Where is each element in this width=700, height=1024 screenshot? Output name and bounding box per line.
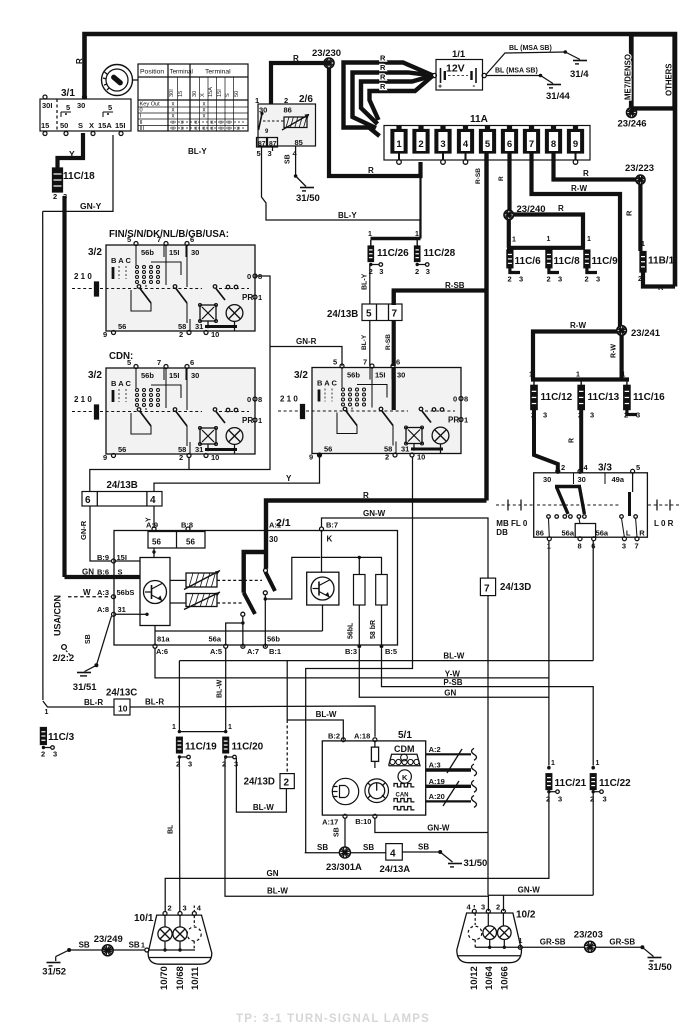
svg-text:5: 5 [108, 103, 112, 112]
wire box2 pin2 to y470 bus [188, 458, 190, 470]
svg-text:2/6: 2/6 [299, 94, 313, 105]
splice 23/230 [324, 58, 334, 68]
svg-text:B:2: B:2 [328, 732, 340, 741]
svg-text:8: 8 [578, 542, 582, 551]
svg-text:0: 0 [247, 395, 251, 404]
wire R-SB bus to 24/13B-7 [394, 291, 487, 306]
switch 3/2-CDN right pins 0 8 [253, 397, 257, 401]
connector 11C/8 [546, 250, 552, 268]
svg-text:24/13B: 24/13B [327, 309, 358, 320]
svg-text:3: 3 [603, 795, 607, 804]
splice 23/223 [636, 175, 645, 184]
wire GN-R box1 pin8 to box3 pin5 and 24/13B-6 [90, 276, 270, 492]
svg-text:5: 5 [333, 358, 337, 367]
svg-text:SB: SB [363, 843, 374, 852]
switch 3/2-3 lever contacts dots [342, 388, 345, 391]
svg-text:S: S [78, 121, 83, 130]
switch 3/2-3 internal wires [341, 368, 343, 388]
lamp 10/1 bulbs [164, 916, 166, 928]
svg-text:B A C: B A C [111, 256, 131, 265]
svg-text:GN: GN [444, 689, 456, 698]
svg-text:56: 56 [152, 538, 161, 547]
relay 2/6 coil [284, 117, 307, 128]
wire GN-Y from ignition 15A [43, 135, 113, 211]
svg-text:56b: 56b [141, 248, 154, 257]
svg-text:11C/13: 11C/13 [588, 392, 620, 403]
module 5/1 box [322, 741, 425, 815]
lamp 10/2 bulbs [487, 913, 489, 926]
lamp 10/1 dashed bulb [193, 916, 195, 927]
svg-text:11A: 11A [470, 114, 488, 125]
svg-text:R: R [368, 166, 374, 175]
svg-text:11C/12: 11C/12 [541, 392, 573, 403]
wire R 11B/1 to right edge [643, 272, 675, 287]
switch 3/2-3 box [312, 368, 461, 454]
svg-text:7: 7 [157, 235, 161, 244]
svg-text:2: 2 [41, 750, 45, 759]
blade contact and pivot [264, 569, 268, 573]
svg-text:3/2: 3/2 [88, 247, 102, 258]
svg-text:11C/28: 11C/28 [424, 248, 456, 259]
switch 3/2-CDN top pins [134, 365, 138, 369]
svg-text:30: 30 [77, 101, 85, 110]
svg-text:31/52: 31/52 [42, 967, 66, 978]
connector 11C/28 [416, 240, 418, 246]
svg-text:3: 3 [558, 795, 562, 804]
svg-text:0: 0 [247, 272, 251, 281]
wire GN-W B:10 branch [375, 818, 488, 832]
transistor T2 [311, 577, 334, 600]
svg-text:B:8: B:8 [181, 521, 193, 530]
svg-text:S: S [225, 93, 231, 97]
svg-text:P-SB: P-SB [443, 678, 462, 687]
switch 3/2-CDN blades [137, 408, 141, 412]
splice 23/246 [627, 108, 637, 118]
switch 3/2-CDN box [106, 368, 255, 454]
switch 3/2-FIN top pins [134, 242, 138, 246]
svg-text:Y: Y [69, 149, 75, 159]
splice 23/240 [504, 210, 514, 220]
connector 24/13A box [386, 844, 403, 861]
svg-text:56b: 56b [267, 635, 280, 644]
wire BL-W horizontal to 3/3 pin6 [179, 660, 593, 662]
svg-text:ME7/DENSO: ME7/DENSO [624, 54, 633, 100]
svg-text:5: 5 [257, 149, 261, 158]
svg-text:10: 10 [211, 453, 219, 462]
svg-text:R: R [293, 54, 299, 63]
svg-text:OTHERS: OTHERS [665, 64, 674, 97]
svg-text:CDM: CDM [394, 744, 415, 754]
svg-text:30: 30 [543, 475, 551, 484]
svg-text:10: 10 [118, 704, 128, 714]
svg-text:23/241: 23/241 [631, 328, 661, 339]
unit 2/1 transistor box right [307, 572, 339, 605]
svg-text:11C/9: 11C/9 [592, 256, 619, 267]
svg-text:R-SB: R-SB [445, 281, 465, 290]
connector 11C/9 [584, 250, 590, 268]
svg-text:2: 2 [385, 453, 389, 462]
svg-text:1: 1 [547, 236, 551, 243]
svg-text:x: x [228, 126, 231, 132]
svg-text:0: 0 [453, 395, 457, 404]
wire R splice 23/230 down to fuse 2 [329, 68, 421, 176]
svg-text:B A C: B A C [317, 379, 337, 388]
svg-text:56a: 56a [596, 529, 609, 538]
wire BL-W 11C/20 pin2 down to 10/2 pin3 [225, 757, 488, 911]
switch 3/2-CDN warn symbol [200, 428, 216, 444]
svg-text:2: 2 [508, 275, 512, 284]
lamp 10/2 dashed bulb [474, 913, 476, 925]
ground 31/51 [77, 672, 91, 674]
svg-text:11C/18: 11C/18 [63, 171, 95, 182]
wire 56a contact to A:5 A:7 [242, 616, 244, 647]
svg-text:24/13C: 24/13C [106, 688, 137, 699]
svg-text:K: K [327, 535, 333, 544]
svg-text:A:5: A:5 [210, 647, 222, 656]
svg-text:BL: BL [168, 824, 175, 834]
svg-text:1: 1 [141, 943, 145, 950]
svg-text:2: 2 [53, 192, 57, 201]
svg-text:R-W: R-W [611, 344, 618, 358]
switch 3/2-FIN lever contacts dots [136, 266, 139, 269]
wire main feed R top bus [85, 34, 676, 287]
svg-text:56a: 56a [562, 529, 575, 538]
svg-text:1: 1 [415, 231, 419, 238]
svg-text:8: 8 [464, 395, 468, 404]
wire Y 24/13B-4 down to 2/1 A:9 [153, 506, 155, 528]
svg-text:GR-SB: GR-SB [609, 938, 635, 947]
svg-text:3: 3 [558, 275, 562, 284]
wire K vertical [321, 531, 323, 572]
svg-text:1: 1 [596, 760, 600, 767]
svg-text:2: 2 [284, 96, 288, 105]
svg-text:2: 2 [415, 267, 419, 276]
svg-text:11C/6: 11C/6 [515, 256, 542, 267]
svg-text:BL-R: BL-R [84, 698, 103, 707]
lamp 10/1 pin4 stub [193, 906, 195, 912]
svg-text:5: 5 [485, 139, 491, 150]
svg-text:31/50: 31/50 [296, 193, 320, 204]
svg-text:Y: Y [286, 474, 292, 483]
svg-text:3: 3 [268, 149, 272, 158]
svg-text:B:1: B:1 [269, 647, 281, 656]
svg-text:SB: SB [418, 843, 429, 852]
svg-text:5: 5 [127, 358, 131, 367]
svg-text:3: 3 [183, 904, 187, 913]
wire 11C/13 to 3/3 pin4 [579, 410, 583, 473]
svg-text:30: 30 [578, 475, 586, 484]
wire GN down from 11C/18 pin3 [62, 196, 66, 577]
svg-text:30: 30 [192, 91, 198, 97]
svg-text:23/301A: 23/301A [326, 862, 362, 873]
svg-text:15A: 15A [208, 87, 214, 97]
wire R-W 23/241 left branch [533, 332, 617, 380]
svg-text:7: 7 [363, 358, 367, 367]
svg-text:1: 1 [519, 938, 523, 945]
switch 3/2-3 warn symbol [406, 428, 422, 444]
wire to ground 31/50 right [640, 945, 644, 949]
svg-text:R: R [639, 529, 645, 538]
wire R fuse6 to 23/240 [507, 153, 511, 210]
svg-text:30: 30 [191, 248, 199, 257]
svg-text:31: 31 [401, 445, 409, 454]
connector 11C/22 [591, 766, 595, 770]
svg-text:15: 15 [178, 91, 184, 97]
switch 3/2-CDN bottom pins [112, 454, 116, 458]
switch 3/2-FIN dashed travel line [72, 288, 92, 290]
svg-text:10: 10 [211, 330, 219, 339]
ground 31/50 relay [300, 187, 314, 189]
wire GN-W across to 11C/22 column and lamp 10/2 [488, 894, 593, 896]
svg-text:3: 3 [519, 275, 523, 284]
svg-text:x: x [203, 114, 206, 120]
svg-text:86: 86 [536, 529, 544, 538]
resistor 58bR [376, 575, 388, 606]
svg-text:56bS: 56bS [117, 588, 135, 597]
svg-text:31/4: 31/4 [570, 69, 589, 80]
svg-text:A:3: A:3 [97, 588, 109, 597]
svg-text:2: 2 [590, 795, 594, 804]
svg-text:BL-W: BL-W [253, 803, 274, 812]
wire 3/3 pin1 down GN to 11C/21 [548, 541, 550, 766]
svg-text:24/13D: 24/13D [244, 777, 275, 788]
svg-text:7: 7 [635, 542, 639, 551]
switch 3/3 sub box [575, 524, 595, 538]
wire 11C/16 elbow [627, 410, 637, 415]
svg-text:x: x [211, 126, 214, 132]
svg-text:R: R [498, 176, 505, 181]
svg-text:11C/8: 11C/8 [554, 256, 581, 267]
cable slashes [447, 749, 462, 773]
svg-text:BL (MSA SB): BL (MSA SB) [509, 45, 552, 52]
svg-text:10/64: 10/64 [484, 966, 495, 990]
connector 11C/21 [547, 766, 551, 770]
svg-text:85: 85 [295, 138, 303, 147]
svg-text:B:10: B:10 [355, 817, 371, 826]
svg-text:58 bR: 58 bR [370, 620, 377, 639]
svg-text:8: 8 [551, 139, 556, 150]
wire R-W 23/241 to connector bus [619, 335, 623, 379]
svg-text:4: 4 [390, 849, 396, 860]
svg-text:11C/26: 11C/26 [377, 248, 409, 259]
switch 3/2-CDN internal wires [135, 368, 137, 388]
wire Y from ignition S terminal [58, 133, 84, 168]
wire SB A:17 to 23/301A [344, 818, 346, 847]
wire BL-W A:6 81a to 3/3 pin1 [155, 648, 549, 678]
svg-text:3: 3 [379, 267, 383, 276]
fuses 1-9 [391, 130, 407, 154]
wire box3 pin10 to SB net [306, 458, 413, 853]
svg-text:x: x [195, 126, 198, 132]
svg-text:BL-W: BL-W [217, 679, 224, 698]
svg-text:56: 56 [186, 538, 195, 547]
svg-text:11C/21: 11C/21 [555, 778, 587, 789]
svg-text:30: 30 [397, 371, 405, 380]
svg-text:BL-Y: BL-Y [338, 211, 357, 220]
svg-text:3/3: 3/3 [598, 463, 612, 474]
svg-text:GN-W: GN-W [427, 824, 450, 833]
svg-text:A:18: A:18 [354, 732, 370, 741]
svg-text:9: 9 [103, 330, 107, 339]
wire SB lamp 10/1 to 23/249 [69, 949, 145, 951]
svg-text:50: 50 [60, 121, 68, 130]
svg-text:1: 1 [258, 293, 262, 302]
svg-text:15I: 15I [169, 371, 179, 380]
svg-text:7: 7 [392, 309, 398, 320]
splice 23/203 [585, 941, 596, 952]
relay coil K2 [186, 594, 217, 607]
wire internal 31 bus [155, 630, 323, 632]
svg-text:10/2: 10/2 [516, 910, 536, 921]
svg-text:10/11: 10/11 [190, 966, 201, 990]
svg-text:11C/16: 11C/16 [633, 392, 665, 403]
svg-text:1: 1 [576, 372, 580, 379]
wire BL-Y 11C/26 to box3 pin7 [369, 265, 371, 305]
svg-text:BL-W: BL-W [316, 710, 337, 719]
lamp assembly 10/1 body [148, 915, 212, 964]
svg-text:87: 87 [258, 141, 266, 148]
module 5/1 rotary symbol [365, 779, 389, 803]
svg-text:5: 5 [366, 309, 372, 320]
svg-text:23/223: 23/223 [625, 163, 654, 174]
switch 3/3 dashed travel line [496, 504, 533, 506]
wire bus 11C/26 11C/28 pin1 [371, 237, 421, 240]
switch 3/2-CDN dashed travel line [72, 411, 92, 413]
svg-text:5: 5 [127, 235, 131, 244]
svg-text:X: X [200, 93, 206, 97]
wire to ground 31/52 [67, 948, 71, 952]
svg-text:BL-W: BL-W [443, 652, 464, 661]
wire BL-W A:5 down [225, 648, 227, 731]
wire R-SB 24/13B-7 to box3 pin6 [392, 291, 396, 306]
svg-text:R-SB: R-SB [475, 168, 482, 184]
svg-text:1: 1 [228, 724, 232, 731]
switch 3/2-CDN lever contacts dots [136, 389, 139, 392]
svg-text:1: 1 [622, 372, 626, 379]
lamp assembly 10/2 body [457, 913, 522, 963]
lamp 10/2 internal bus [475, 946, 520, 948]
svg-text:5: 5 [66, 103, 70, 112]
switch 3/2-FIN box [106, 245, 255, 331]
svg-text:15I: 15I [115, 121, 125, 130]
svg-text:BL-Y: BL-Y [361, 334, 368, 350]
svg-text:GN-Y: GN-Y [80, 201, 102, 211]
svg-text:SB: SB [85, 634, 92, 644]
switch 3/3 box [534, 473, 648, 537]
connector 11C/13 [580, 380, 582, 386]
switch 3/2-3 internal 31 bus [411, 448, 443, 451]
svg-text:CAN: CAN [396, 793, 409, 799]
wire BL 11C/19 to lamp 10/1 pin3 [178, 757, 180, 912]
svg-text:5: 5 [636, 463, 640, 472]
switch 3/2-FIN internal 31 bus [205, 325, 237, 328]
svg-text:11B/1: 11B/1 [648, 256, 675, 267]
relay 2/6 87 87 85 terminals [257, 138, 267, 148]
svg-text:50: 50 [234, 91, 240, 97]
switch 3/2-3 top pins [340, 364, 344, 368]
svg-text:1: 1 [641, 241, 645, 248]
svg-text:3/2: 3/2 [88, 370, 102, 381]
svg-text:56: 56 [118, 445, 126, 454]
svg-text:31/44: 31/44 [546, 91, 570, 102]
svg-text:3: 3 [543, 411, 547, 420]
wire BL(MSA SB) battery to ground 31/44 [486, 75, 541, 77]
wire 56b contact to B:1 and K net [264, 595, 266, 647]
svg-text:x: x [172, 114, 175, 120]
lamp 10/1 pins [163, 912, 167, 916]
svg-text:15I: 15I [169, 248, 179, 257]
resistor 56bL [354, 575, 366, 606]
svg-text:3: 3 [596, 275, 600, 284]
svg-text:1: 1 [396, 139, 402, 150]
wire B:9 into transistor box [116, 560, 141, 562]
switch 3/3 top pins [556, 469, 560, 473]
wire to ground 31/51 [85, 665, 97, 671]
battery 1/1 box [436, 60, 483, 91]
module 5/1 headlight symbol [332, 778, 358, 804]
key symbol [102, 65, 133, 96]
svg-text:B A C: B A C [111, 379, 131, 388]
svg-text:R: R [625, 210, 634, 216]
svg-text:56: 56 [118, 322, 126, 331]
svg-text:8: 8 [258, 395, 262, 404]
svg-text:1: 1 [368, 231, 372, 238]
wire W dashed into A:3 [68, 596, 111, 598]
wire BL-W jumper to 5/1 B:2 [286, 661, 288, 720]
svg-text:GN: GN [267, 869, 279, 878]
svg-text:L 0 R: L 0 R [654, 519, 674, 528]
svg-text:56b: 56b [347, 371, 360, 380]
svg-text:X: X [89, 121, 94, 130]
wire dashed 24/13D-2 up to BL-W jumper [286, 720, 288, 774]
connector 11C/19 [177, 737, 183, 753]
wire thick 30 blade inside box3 [392, 368, 396, 411]
svg-text:12V: 12V [446, 63, 465, 75]
coil break squiggles [472, 748, 477, 760]
svg-text:A:2: A:2 [429, 745, 441, 754]
wire BL-Y relay 87 to 11C/28 [262, 151, 421, 238]
svg-text:A:17: A:17 [322, 818, 338, 827]
svg-text:GR-SB: GR-SB [540, 938, 566, 947]
ground 31/52 [47, 962, 61, 964]
svg-text:K: K [402, 773, 408, 782]
svg-text:56b: 56b [141, 371, 154, 380]
svg-text:1: 1 [464, 416, 468, 425]
wire BL(MSA SB) battery to ground 31/4 [486, 52, 565, 75]
wire GN-W 24/13D-7 down [487, 596, 489, 896]
svg-text:15A: 15A [98, 121, 112, 130]
wire SB row [305, 852, 340, 854]
svg-text:31: 31 [195, 322, 203, 331]
connector 11C/26 [370, 240, 372, 246]
svg-text:4: 4 [150, 495, 156, 506]
ground 31/50 bottom right [648, 957, 662, 959]
svg-text:x: x [220, 126, 223, 132]
svg-text:3/1: 3/1 [61, 88, 75, 99]
svg-text:31/50: 31/50 [464, 858, 488, 869]
switch 3/2-FIN blades [137, 285, 141, 289]
splice 23/301A [339, 847, 350, 858]
svg-text:1/1: 1/1 [452, 49, 466, 60]
svg-text:24/13A: 24/13A [380, 864, 411, 875]
svg-text:GN-R: GN-R [296, 337, 317, 346]
wire R 23/240 ring to 11C connectors [514, 215, 583, 248]
svg-text:30: 30 [269, 535, 278, 544]
svg-text:3: 3 [481, 903, 485, 912]
wire A:8 internal [116, 613, 141, 615]
svg-text:A:6: A:6 [156, 647, 168, 656]
svg-text:GN-W: GN-W [518, 886, 541, 895]
